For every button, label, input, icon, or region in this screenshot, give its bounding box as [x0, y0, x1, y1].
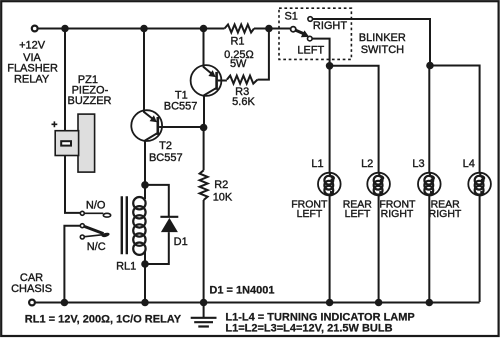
node rail / L2: [375, 299, 383, 307]
svg-text:L4: L4: [463, 158, 475, 170]
switch S1 dashed box: [279, 8, 351, 59]
transistor T2 emitter wire: [143, 29, 145, 111]
svg-text:RIGHT: RIGHT: [381, 208, 414, 220]
relay moving arm: [85, 227, 104, 234]
wire T1 collector down: [203, 96, 205, 128]
svg-text:RL1: RL1: [116, 261, 136, 273]
svg-text:S1: S1: [284, 11, 297, 23]
transistor T1 emitter wire: [203, 29, 205, 66]
svg-text:RELAY: RELAY: [14, 73, 50, 85]
svg-text:BUZZER: BUZZER: [68, 95, 112, 107]
svg-text:D1 = 1N4001: D1 = 1N4001: [209, 285, 274, 297]
node rail / coil: [141, 299, 149, 307]
svg-text:N/O: N/O: [86, 199, 106, 211]
label CAR CHASIS: [11, 272, 52, 295]
relay core bars: [122, 196, 127, 254]
svg-text:5W: 5W: [230, 58, 247, 70]
svg-text:BC557: BC557: [149, 152, 183, 164]
svg-text:RIGHT: RIGHT: [429, 208, 462, 220]
relay contact N/C: [80, 235, 84, 239]
relay N/C pad: [101, 232, 110, 238]
svg-text:L1: L1: [311, 158, 323, 170]
transistor T2 BC557: [131, 110, 162, 141]
plus polarity mark: [52, 121, 58, 127]
wire T2 base to node: [159, 126, 204, 128]
node rail / relay pole: [61, 299, 69, 307]
relay pole contact: [80, 224, 84, 228]
label R1 0.25ohm 5W: [224, 35, 254, 70]
svg-text:RL1 = 12V, 200Ω, 1C/O RELAY: RL1 = 12V, 200Ω, 1C/O RELAY: [25, 313, 182, 325]
svg-text:R1: R1: [230, 35, 244, 47]
label T1 BC557: [164, 90, 198, 113]
car chassis terminal: [29, 300, 35, 306]
label T2 BC557: [149, 140, 183, 164]
node L3/L4 split: [426, 62, 434, 70]
svg-text:LEFT: LEFT: [297, 44, 324, 56]
node: R1 right / R3 branch: [265, 25, 273, 33]
wire node to L4: [430, 66, 480, 173]
wire node to L1: [329, 66, 331, 173]
svg-text:CHASIS: CHASIS: [11, 283, 52, 295]
svg-text:T2: T2: [159, 140, 172, 152]
label BLINKER SWITCH: [359, 32, 406, 56]
node rail / L1: [326, 299, 334, 307]
node rail / R2 ground: [200, 299, 208, 307]
switch S1 pole: [291, 27, 296, 32]
label REAR LEFT: [343, 198, 373, 220]
label PZ1 PIEZO- BUZZER: [68, 74, 112, 107]
resistor R2: [200, 170, 208, 200]
wire R1 node down to R3: [258, 29, 269, 80]
wire node to L3: [428, 66, 431, 173]
lamp L2: [367, 173, 390, 196]
wire LEFT contact to L1/L2 node: [312, 39, 329, 66]
node T1 collector / T2 base / R2: [200, 124, 208, 132]
svg-text:10K: 10K: [213, 192, 233, 204]
transistor T1 BC557: [191, 65, 222, 96]
svg-text:D1: D1: [174, 236, 188, 248]
piezo-buzzer slot: [61, 141, 71, 145]
svg-text:LEFT: LEFT: [345, 208, 371, 220]
svg-text:RIGHT: RIGHT: [313, 20, 348, 32]
svg-text:L3: L3: [412, 158, 424, 170]
svg-text:5.6K: 5.6K: [232, 96, 255, 108]
node: top rail / T2 emitter: [140, 25, 148, 33]
relay contact N/O: [80, 211, 84, 215]
wire coil bottom to rail: [144, 264, 146, 302]
node: top rail / left branch: [61, 25, 69, 33]
wire T1 base to R3: [218, 79, 227, 82]
svg-text:N/C: N/C: [87, 241, 106, 253]
label FRONT RIGHT: [379, 198, 416, 220]
svg-text:L2: L2: [361, 158, 373, 170]
wire left vertical +12V to buzzer and N/O: [65, 29, 80, 213]
piezo-buzzer PZ1 driver square: [55, 131, 78, 156]
node L1/L2 split: [326, 62, 334, 70]
svg-text:CAR: CAR: [20, 272, 43, 284]
lamp L1: [318, 173, 341, 196]
relay pole wire to chassis: [64, 226, 80, 302]
lamp L4: [468, 173, 491, 196]
wire T2 collector to relay coil: [144, 141, 146, 185]
wire top rail +12V: [38, 28, 291, 30]
resistor R1: [225, 25, 255, 33]
switch contact LEFT: [308, 36, 313, 41]
switch arm: [296, 30, 304, 33]
svg-text:BC557: BC557: [164, 100, 198, 112]
node rail / L3: [426, 299, 434, 307]
svg-text:L1=L2=L3=L4=12V, 21.5W BULB: L1=L2=L3=L4=12V, 21.5W BULB: [225, 322, 392, 334]
label R2 10K: [213, 179, 233, 204]
+12V input terminal: [32, 26, 38, 32]
label FRONT LEFT: [291, 198, 328, 220]
wire node to R2: [203, 128, 205, 171]
wire RIGHT contact to L3/L4 node: [313, 19, 430, 66]
svg-text:BLINKER: BLINKER: [359, 32, 406, 44]
label REAR RIGHT: [429, 198, 462, 220]
label +12V VIA FLASHER RELAY: [7, 39, 58, 85]
label R3 5.6K: [232, 86, 255, 108]
diode D1: [145, 185, 178, 264]
svg-text:+12V: +12V: [19, 39, 46, 51]
wire node to L2: [330, 66, 379, 173]
ground symbol: [191, 303, 217, 327]
switch contact RIGHT: [308, 17, 313, 22]
wire chassis bottom rail: [35, 302, 480, 304]
wire R2 to chassis rail: [203, 200, 205, 302]
svg-text:LEFT: LEFT: [297, 208, 323, 220]
wire lamp bottoms to chassis rail: [330, 195, 480, 302]
svg-text:R2: R2: [214, 179, 228, 191]
node coil top / D1: [141, 181, 149, 189]
piezo-buzzer PZ1 body: [78, 114, 95, 172]
lamp L3: [418, 173, 441, 196]
svg-text:SWITCH: SWITCH: [361, 44, 404, 56]
node coil bottom / D1: [141, 260, 149, 268]
resistor R3: [227, 76, 258, 84]
node: top rail / T1 emitter: [200, 25, 208, 33]
relay coil RL1: [133, 185, 145, 264]
